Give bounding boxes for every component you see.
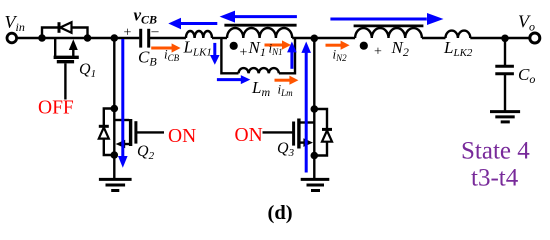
svg-text:State 4: State 4: [461, 138, 530, 165]
junction: Q2 source node: [111, 151, 119, 159]
current arrow: blue left arrow over CB: [168, 18, 217, 29]
polarity dot N1: [230, 42, 238, 50]
current arrow: blue long left arrow over N1: [220, 11, 297, 23]
current arrow: blue down arrow at Q2 branch: [118, 39, 128, 168]
ground (Q2): [99, 179, 132, 190]
wire: Q3 branch vertical: [313, 38, 315, 179]
junction: Q2 drain at rail: [111, 34, 119, 42]
svg-text:ON: ON: [168, 126, 196, 147]
current arrow: blue up arrow at Lm right: [287, 42, 297, 69]
core line of N2: [354, 24, 424, 27]
ground (output): [490, 112, 520, 122]
wire: N2 to LLK2: [422, 37, 446, 39]
svg-text:t3-t4: t3-t4: [471, 165, 519, 192]
current arrow: blue right arrow over N2: [330, 13, 443, 25]
capacitor Co: [495, 38, 514, 111]
inductor LLK1: [186, 31, 212, 38]
diode D3 (body diode of Q3): [314, 109, 332, 156]
capacitor CB: [141, 29, 149, 48]
core line of N1: [224, 24, 296, 27]
diode D2 (body diode of Q2): [99, 109, 115, 156]
junction: center node at rail: [311, 35, 319, 43]
junction: Q3 source node: [311, 152, 319, 160]
wire: CB to LLK1: [150, 37, 186, 39]
svg-text:+: +: [240, 46, 248, 61]
ground (Q3): [301, 179, 330, 190]
inductor LLK2: [446, 31, 471, 38]
wire: LLK2 to Vo: [470, 37, 529, 39]
winding N2: [355, 28, 422, 38]
svg-text:(d): (d): [268, 202, 293, 224]
diode D1 (body diode of Q1): [42, 22, 88, 38]
polarity dot N2: [360, 42, 368, 50]
node Vo terminal: [530, 33, 540, 43]
transistor Q3: [263, 119, 315, 149]
svg-text:+: +: [124, 26, 132, 41]
svg-text:OFF: OFF: [38, 98, 74, 119]
transistor Q2: [114, 119, 164, 148]
wire: LLK1 to N1: [212, 37, 227, 39]
current arrow: blue long up arrow at Q3 branch: [301, 42, 311, 173]
junction: Q3 drain node: [311, 105, 319, 113]
current arrow: iCB orange arrow: [151, 43, 180, 52]
junction: Q2 drain node: [111, 105, 119, 113]
current arrow: iLm orange arrow: [275, 76, 299, 85]
transistor Q1: [54, 38, 79, 100]
inductor Lm branch: [221, 38, 295, 73]
junction: Q1 left node: [38, 34, 46, 42]
junction: Co node: [501, 35, 509, 43]
winding N1: [227, 28, 292, 38]
wire: N1 to N2 rail: [292, 37, 355, 39]
current arrow: iN1 orange arrow: [265, 40, 292, 49]
current arrow: blue down arrow into Lm branch: [210, 43, 220, 65]
junction: Q1 right node: [84, 34, 92, 42]
wire: Vin to Q1 rail: [17, 37, 140, 39]
current arrow: blue right arrow under Lm: [217, 75, 250, 84]
node Vin terminal: [7, 33, 17, 43]
svg-text:ON: ON: [235, 125, 263, 146]
current arrow: iN2 orange arrow: [326, 41, 350, 50]
svg-text:+: +: [374, 45, 382, 60]
wire: Q2 branch vertical: [113, 38, 115, 179]
